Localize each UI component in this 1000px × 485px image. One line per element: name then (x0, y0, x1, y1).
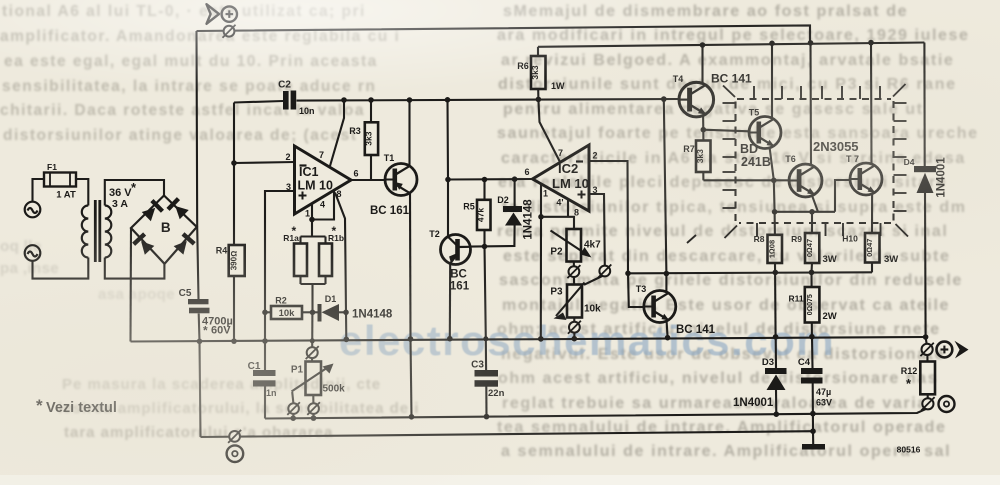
svg-text:1n: 1n (266, 388, 277, 398)
transformer secondary winding (105, 206, 112, 258)
wire D3 chain (775, 337, 777, 368)
wire R5 top leg (483, 180, 485, 200)
op-amp IC2 (533, 145, 590, 211)
svg-text:80516: 80516 (897, 445, 921, 455)
wire IC2 pin1 drop (540, 184, 542, 217)
svg-text:R8: R8 (754, 234, 765, 244)
svg-text:*: * (332, 224, 337, 238)
svg-text:47k: 47k (476, 208, 486, 222)
svg-text:*: * (36, 396, 43, 415)
resistor R4 (229, 245, 245, 276)
wire T6 collector to +V rail (809, 43, 812, 165)
svg-text:BC 141: BC 141 (676, 324, 716, 336)
wire R1 node to R2-D1 node (311, 284, 313, 312)
svg-text:241B: 241B (741, 155, 771, 169)
wire C3 bottom to ground rail (485, 387, 487, 417)
IC1 minus input mark (300, 164, 307, 166)
connector P1 wiper (287, 402, 300, 415)
svg-text:3k3: 3k3 (530, 65, 540, 79)
wire T3 emitter to V- rail (667, 321, 668, 338)
wire D1 to node (339, 311, 346, 313)
earth ground symbol (802, 444, 825, 450)
svg-text:1: 1 (543, 189, 548, 199)
wire C5 bottom to V- rail and down to 0V rail (199, 314, 201, 438)
wire T5 emitter diagonal (770, 147, 774, 181)
resistor R11 (805, 287, 820, 323)
wire D2 top to pin6 node (514, 179, 516, 206)
svg-text:1W: 1W (551, 81, 565, 91)
wire IC1 pin3 (265, 191, 295, 341)
wire R5 bottom leg (483, 230, 485, 246)
svg-text:1N4001: 1N4001 (936, 157, 948, 198)
wire T2 emitter to V- rail (449, 263, 452, 338)
wire +V second rail (538, 43, 924, 47)
svg-text:3k3: 3k3 (695, 149, 705, 163)
wire R10 bottom leg (871, 263, 873, 273)
wire R3 top to bias rail (370, 100, 372, 122)
svg-text:2N3055: 2N3055 (813, 139, 859, 154)
wire P2 wiper arm (551, 231, 590, 257)
svg-text:T 7: T 7 (846, 154, 859, 164)
wire R2 left node (265, 311, 271, 313)
transistor T7 (850, 163, 882, 195)
svg-text:0Ω47: 0Ω47 (865, 239, 874, 257)
svg-text:4: 4 (320, 200, 325, 210)
wire connector to R12 (926, 355, 928, 362)
wire pin1 node to R1 top strap (311, 220, 313, 237)
watermark (339, 317, 835, 365)
resistor R1a (294, 244, 307, 277)
P3 arrow head (554, 313, 567, 321)
wire T2 base chain from bias rail (446, 100, 449, 237)
resistor R5 (477, 200, 491, 230)
svg-text:1N4148: 1N4148 (523, 199, 535, 240)
terminal input arrow (207, 4, 220, 24)
resistor R8 (768, 235, 783, 263)
svg-text:0Ω47: 0Ω47 (805, 239, 814, 257)
svg-text:T6: T6 (785, 154, 796, 164)
svg-text:390Ω: 390Ω (230, 251, 239, 270)
bridge diode top-right (166, 197, 189, 220)
connector on 0V rail (228, 430, 241, 443)
connector above P1 (306, 346, 319, 359)
svg-text:161: 161 (450, 281, 470, 293)
wire bias rail y=100 right part (297, 99, 680, 101)
transistor T6 (789, 164, 822, 197)
wire P1 connector to P1 (311, 358, 313, 362)
wire R12 to lower connector (927, 394, 929, 398)
svg-text:3 A: 3 A (112, 198, 128, 210)
svg-text:R4: R4 (216, 246, 228, 256)
bridge diode top-left (141, 199, 164, 222)
capacitor C1 (253, 370, 276, 387)
wire T5 collector to +V rail (771, 43, 773, 118)
wire P1 bottom connector to ground rail (312, 414, 314, 418)
wire IC1 pins 4-8 strap (312, 190, 334, 219)
resistor R10 (865, 233, 880, 263)
svg-text:47µ: 47µ (816, 387, 831, 397)
AC source terminal 1 (25, 202, 41, 218)
bridge diode bottom-right (173, 232, 196, 255)
svg-text:500k: 500k (323, 384, 346, 395)
op-amp IC1 (295, 146, 352, 214)
wire T4 collector to +V rail (701, 45, 703, 84)
svg-text:R9: R9 (791, 234, 802, 244)
wire R1a legs (299, 237, 301, 244)
wire T3 collector long vertical (664, 99, 667, 292)
wire bridge left vertex to V- rail (129, 228, 132, 342)
wire C1 bottom to ground rail (264, 387, 266, 419)
wire D3 bottom to ground rail (775, 390, 777, 415)
svg-text:1: 1 (305, 209, 310, 219)
wire bias rail y=100 (234, 101, 283, 103)
wire R7 to T6 base (703, 179, 789, 181)
svg-text:T2: T2 (429, 229, 440, 239)
wire 0V bottom rail (201, 431, 814, 437)
transistor T1 (385, 164, 417, 196)
wire P2 connector to P3 top (573, 277, 575, 285)
svg-text:R6: R6 (517, 61, 529, 71)
svg-text:R3: R3 (349, 126, 361, 136)
wire T5 emitter node down (773, 180, 776, 212)
fuse F1 (44, 173, 76, 187)
wire P3 wiper arm (556, 283, 585, 317)
terminal input plus circle (222, 6, 237, 21)
wire D4 chain from +V rail (923, 43, 925, 167)
wire R4 bottom to V- rail (233, 276, 235, 341)
connector below P2 (567, 265, 580, 278)
svg-text:1 AT: 1 AT (56, 190, 76, 201)
wire T6 emitter stub (812, 196, 818, 212)
bridge diode bottom-left (132, 232, 155, 255)
capacitor C2 (283, 91, 296, 110)
diode D4 (914, 166, 936, 193)
svg-text:8: 8 (574, 208, 579, 218)
capacitor C4 (801, 368, 823, 384)
svg-text:3k3: 3k3 (363, 131, 373, 145)
svg-text:P1: P1 (291, 365, 304, 376)
svg-text:C4: C4 (798, 357, 811, 368)
terminal output arrow (955, 341, 969, 359)
svg-text:BC 141: BC 141 (711, 72, 752, 86)
svg-text:T4: T4 (673, 74, 684, 84)
wire R9 to R11 (810, 263, 813, 287)
svg-text:2: 2 (285, 152, 290, 162)
wire emitter bus (775, 211, 835, 213)
svg-text:8: 8 (336, 189, 341, 199)
wire P1 wiper arm (292, 366, 331, 392)
wire P1 wiper connector stub (292, 392, 293, 403)
svg-text:P2: P2 (550, 247, 563, 258)
svg-text:4': 4' (556, 198, 563, 208)
wire IC2 pin6 line (448, 178, 533, 181)
svg-text:10n: 10n (299, 106, 315, 116)
wire P1 bottom to connector (312, 395, 314, 403)
svg-text:0Ω075: 0Ω075 (807, 294, 814, 315)
capacitor C3 (475, 370, 499, 387)
svg-text:60V: 60V (211, 325, 231, 337)
svg-text:BC 161: BC 161 (370, 205, 410, 217)
svg-text:*: * (131, 180, 137, 195)
wire R11 bottom leg (811, 323, 813, 337)
wire main left vertical (bridge+ / C5 / 0V) (197, 31, 199, 299)
svg-text:*: * (906, 376, 912, 391)
wire P3 connector to V- rail (573, 333, 575, 339)
wire R1b legs (324, 237, 326, 244)
wire IC2 pin6 to D2 node done in part2; T3 base jog (628, 273, 644, 307)
connector below P3 (568, 321, 581, 334)
svg-text:R11: R11 (788, 294, 803, 304)
wire R7 node to T5 base (703, 130, 749, 132)
wire V- long rail (131, 337, 926, 342)
wire AC source 1 to fuse (33, 179, 45, 202)
heatsink hatch ticks (687, 84, 908, 243)
wire P3 bottom to connector (573, 318, 575, 322)
svg-text:3W: 3W (823, 254, 837, 265)
svg-text:R5: R5 (463, 202, 475, 212)
wire signal-ground rail (265, 409, 926, 419)
svg-text:3: 3 (286, 182, 291, 192)
wire IC2 pin2 (589, 161, 628, 273)
wire output to plus terminal connector (926, 337, 927, 344)
resistor R2 (271, 306, 302, 319)
wire +V top rail (197, 25, 811, 43)
svg-text:R12: R12 (901, 366, 918, 376)
svg-text:*: * (292, 224, 297, 238)
terminal 0 left (227, 445, 244, 462)
svg-text:IC1: IC1 (299, 165, 319, 179)
wire R6 top leg (537, 47, 539, 56)
wire C3 chain down from T2 collector node (485, 246, 487, 370)
transformer core (95, 200, 100, 262)
P1 arrow head (323, 364, 334, 374)
svg-text:1N4148: 1N4148 (352, 309, 393, 321)
wire secondary bottom to bridge (105, 258, 165, 279)
heatsink boundary dashed (736, 99, 894, 223)
potentiometer P2 (567, 229, 582, 262)
resistor R3 (365, 122, 378, 155)
wire pin1 node to V- rail (540, 217, 542, 339)
svg-text:BD: BD (740, 142, 758, 156)
wire C2/pin2 vertical to R4 (233, 103, 235, 246)
svg-text:LM 10: LM 10 (298, 179, 333, 193)
IC2 minus mark (576, 160, 583, 162)
svg-text:D4: D4 (904, 157, 915, 167)
wire V- rail to ground rail link (411, 339, 412, 417)
wire R9 top leg (811, 212, 813, 233)
svg-text:4k7: 4k7 (584, 240, 601, 251)
svg-text:C3: C3 (471, 360, 484, 371)
svg-text:1Ω08: 1Ω08 (768, 240, 777, 258)
wire pin3 connector to P3 (584, 276, 602, 285)
wire jog to T7 base (835, 180, 850, 212)
P2 arrow head (581, 247, 592, 258)
svg-text:H10: H10 (842, 234, 858, 244)
wire P2 bottom to connector (573, 262, 575, 267)
wire IC1 pin7 to bias rail (330, 100, 344, 166)
svg-text:C2: C2 (278, 80, 291, 91)
svg-text:D2: D2 (497, 195, 509, 205)
IC1 plus input mark (299, 192, 307, 200)
wire pin8 diagonal to D1 node (335, 193, 346, 340)
svg-text:B: B (161, 220, 171, 235)
wire R1 node to P1 connector (311, 312, 313, 347)
wire T1 collector to bias rail (408, 100, 410, 165)
wire T7 emitter to R10 (871, 195, 873, 233)
svg-text:2W: 2W (823, 311, 837, 322)
svg-text:T1: T1 (384, 153, 395, 163)
svg-text:63V: 63V (816, 398, 832, 408)
svg-text:10k: 10k (279, 308, 296, 319)
connector on +V rail (223, 25, 236, 38)
svg-text:C5: C5 (179, 288, 192, 299)
svg-text:D1: D1 (325, 294, 337, 304)
wire IC2 pin7 to bias rail (538, 99, 560, 162)
wire P1 wiper connector to ground rail (292, 414, 294, 418)
svg-text:BC: BC (450, 269, 467, 281)
wire C4 bottom to earth (812, 384, 814, 432)
wire T4 emitter to R7 node (702, 116, 704, 130)
svg-text:6: 6 (524, 167, 529, 177)
wire R8 bottom leg (774, 263, 777, 337)
svg-text:C1: C1 (248, 361, 261, 372)
svg-text:7: 7 (558, 148, 563, 158)
connector below R12 (921, 397, 934, 410)
wire R1 bottom strap (301, 283, 326, 285)
resistor R12 (920, 362, 935, 395)
transformer primary winding (82, 206, 88, 258)
svg-text:Vezi textul: Vezi textul (46, 400, 117, 416)
wire T1 emitter down to V- rail (409, 194, 412, 340)
AC source terminal 2 (25, 245, 41, 261)
wire pin8 leg (567, 200, 569, 217)
svg-text:22n: 22n (488, 388, 505, 399)
wire R8 top leg (774, 212, 776, 235)
resistor R9 (805, 233, 819, 263)
wire AC source 2 to primary bottom (33, 258, 89, 279)
wire R1a R1b top strap (301, 235, 326, 237)
capacitor C5 (188, 299, 210, 313)
IC2 plus mark (578, 191, 586, 199)
svg-text:2: 2 (592, 151, 597, 161)
wire IC2 pin3 (589, 194, 605, 265)
svg-text:R2: R2 (275, 296, 287, 306)
wire R1a bottom leg (299, 276, 301, 284)
svg-text:7: 7 (319, 150, 324, 160)
wire pin3 node down through C1 (264, 341, 266, 370)
wire R1b bottom leg (324, 276, 326, 284)
svg-text:6: 6 (353, 169, 358, 179)
wire T2 collector line (470, 226, 515, 247)
transistor T3 (644, 291, 676, 323)
svg-text:10k: 10k (584, 304, 601, 315)
svg-text:T3: T3 (636, 284, 647, 294)
wire output node line (628, 272, 872, 273)
resistor R7 (696, 141, 711, 173)
svg-text:F1: F1 (47, 162, 57, 172)
resistor R1b (319, 244, 332, 277)
wire C4 chain (811, 337, 814, 368)
wire pin1-pin8 strap to P2 (541, 217, 574, 229)
resistor R6 (531, 56, 546, 89)
transistor T4 (679, 82, 714, 117)
wire secondary top to bridge (105, 180, 164, 206)
svg-text:T5: T5 (749, 108, 760, 118)
wire T7 collector to +V rail (870, 43, 873, 164)
svg-text:IC2: IC2 (558, 161, 578, 176)
diode D3 (765, 368, 787, 390)
svg-text:D3: D3 (762, 357, 774, 368)
svg-text:1N4001: 1N4001 (733, 397, 774, 409)
svg-text:3W: 3W (884, 254, 898, 265)
potentiometer P1 (306, 362, 322, 396)
wire D4 bottom to output node (924, 193, 927, 337)
wire IC1 pin6 to T1 base (351, 179, 385, 181)
svg-text:R7: R7 (683, 144, 695, 154)
diode D2 (503, 206, 522, 226)
connector pin3 (598, 265, 611, 278)
transistor T5 (749, 117, 781, 149)
svg-text:LM 10: LM 10 (552, 176, 589, 191)
svg-text:3: 3 (592, 185, 597, 195)
wire fuse to primary (76, 179, 88, 206)
wire earth stub (812, 431, 814, 444)
terminal output plus circle (937, 342, 953, 358)
wire R2 to D1 (302, 311, 318, 313)
wire R3 bottom to pin6 wire (370, 155, 372, 180)
wire R7 top leg (702, 130, 704, 141)
bridge rectifier B outline (131, 196, 197, 264)
wire IC1 pin2 (234, 162, 295, 163)
potentiometer P3 (567, 285, 582, 318)
transistor T2 (441, 235, 471, 265)
connector P1 bottom (307, 402, 320, 415)
wire R7 bottom leg (702, 172, 704, 180)
diode D1 (318, 304, 340, 322)
terminal 0 right (939, 396, 955, 412)
svg-text:P3: P3 (550, 287, 563, 298)
connector above R12 (920, 343, 933, 356)
svg-text:*: * (203, 324, 208, 338)
wire R6 bottom leg (537, 89, 539, 99)
